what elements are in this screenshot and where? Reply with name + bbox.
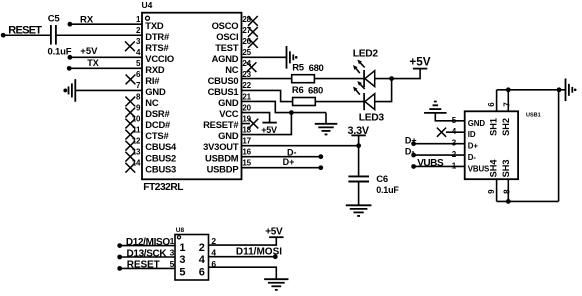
header U8 body bbox=[175, 235, 209, 281]
svg-text:25: 25 bbox=[242, 48, 251, 57]
U8 pin 1 indicator bbox=[177, 236, 180, 239]
svg-text:680: 680 bbox=[309, 63, 324, 74]
svg-text:U8: U8 bbox=[176, 227, 185, 234]
svg-text:TEST: TEST bbox=[215, 42, 239, 53]
svg-text:3: 3 bbox=[136, 37, 141, 46]
wire U4 pin 16 USBDM D- bbox=[242, 156, 321, 158]
wire shield top rail bbox=[497, 89, 559, 91]
wire U4 pin 17 3V3OUT bbox=[242, 145, 359, 147]
svg-text:OSCI: OSCI bbox=[216, 31, 238, 42]
svg-text:6: 6 bbox=[487, 102, 496, 107]
wire U4 pin 25 AGND to ground bbox=[242, 56, 287, 58]
wire ground to U4 pin 7 bbox=[75, 89, 142, 91]
svg-text:2: 2 bbox=[199, 242, 205, 254]
svg-text:3V3OUT: 3V3OUT bbox=[203, 141, 239, 152]
svg-text:SH2: SH2 bbox=[501, 118, 511, 136]
svg-text:LED3: LED3 bbox=[359, 112, 385, 123]
wire TX to U4 pin 5 bbox=[69, 67, 142, 69]
wire R6 to LED3 bbox=[315, 101, 364, 103]
svg-text:LED2: LED2 bbox=[353, 49, 379, 60]
LED2 arrow 2 bbox=[360, 63, 364, 68]
USB1 shield pin 7 wire bbox=[507, 90, 509, 112]
no-connect U4 pin 9 bbox=[125, 108, 135, 118]
+5V supply symbol at VCC bbox=[262, 122, 276, 124]
node TX bbox=[67, 66, 72, 71]
no-connect USB1 pin 4 ID bbox=[446, 131, 465, 133]
wire U4 pin 15 USBDP D+ bbox=[242, 167, 321, 169]
svg-text:ID: ID bbox=[468, 130, 476, 139]
no-connect U4 pin 14 bbox=[125, 163, 135, 173]
node RESET bbox=[1, 33, 6, 38]
svg-text:CBUS2: CBUS2 bbox=[145, 152, 176, 163]
svg-text:19: 19 bbox=[242, 114, 251, 123]
LED3 bbox=[363, 93, 365, 110]
svg-text:4: 4 bbox=[136, 48, 141, 57]
svg-text:22: 22 bbox=[242, 81, 251, 90]
svg-text:SH3: SH3 bbox=[501, 160, 511, 178]
svg-text:5: 5 bbox=[179, 266, 185, 278]
node D11/MOSI bbox=[273, 254, 278, 259]
svg-text:0.1uF: 0.1uF bbox=[376, 185, 399, 195]
node LED junction bbox=[389, 76, 394, 81]
wire RX to U4 pin 1 bbox=[70, 23, 142, 25]
svg-text:20: 20 bbox=[242, 103, 251, 112]
svg-text:VCCIO: VCCIO bbox=[145, 53, 174, 64]
svg-text:+5V: +5V bbox=[265, 226, 283, 237]
no-connect U4 pin 26 bbox=[248, 38, 258, 48]
svg-text:D-: D- bbox=[287, 148, 297, 158]
node VUBS bbox=[411, 164, 416, 169]
svg-text:DTR#: DTR# bbox=[145, 31, 170, 42]
svg-text:4: 4 bbox=[199, 254, 206, 266]
no-connect U4 pin 19 RESET# bbox=[242, 123, 251, 125]
LED2 arrow 1 bbox=[356, 69, 360, 74]
svg-text:VBUS: VBUS bbox=[468, 164, 489, 173]
svg-text:0.1uF: 0.1uF bbox=[48, 46, 72, 57]
svg-text:8: 8 bbox=[503, 189, 512, 194]
ground above USB1 pin 5 bbox=[424, 112, 447, 114]
node shield pin 8 junction bbox=[506, 199, 511, 204]
svg-text:USBDP: USBDP bbox=[207, 163, 239, 174]
wire shield bottom rail bbox=[497, 200, 559, 202]
ground bottom bbox=[264, 278, 288, 280]
svg-text:7: 7 bbox=[503, 102, 512, 107]
node 3V3OUT bbox=[356, 143, 361, 148]
svg-text:R6: R6 bbox=[292, 85, 304, 96]
svg-text:9: 9 bbox=[136, 103, 141, 112]
wire U8 pin 4 D11/MOSI bbox=[209, 256, 276, 258]
svg-text:6: 6 bbox=[211, 259, 216, 269]
svg-text:7: 7 bbox=[136, 81, 141, 90]
svg-text:AGND: AGND bbox=[212, 53, 239, 64]
svg-text:FT232RL: FT232RL bbox=[143, 182, 183, 193]
no-connect U4 pin 10 bbox=[125, 119, 135, 129]
node D- USB bbox=[411, 153, 416, 158]
wire +5V to U4 pin 4 bbox=[70, 56, 142, 58]
svg-text:RTS#: RTS# bbox=[145, 42, 169, 53]
no-connect U4 pin 24 bbox=[247, 62, 257, 72]
svg-text:3.3V: 3.3V bbox=[348, 125, 370, 137]
wire D12/MISO to U8 pin 1 bbox=[120, 245, 175, 247]
node D13/SCK bbox=[117, 255, 122, 260]
USB connector USB1 body bbox=[465, 111, 518, 179]
svg-text:U4: U4 bbox=[142, 0, 153, 10]
svg-text:5: 5 bbox=[136, 59, 141, 68]
3.3V supply symbol bbox=[351, 134, 365, 136]
wire USB1 pin 1 VBUS bbox=[414, 165, 465, 167]
svg-text:+5V: +5V bbox=[261, 125, 277, 135]
svg-text:CTS#: CTS# bbox=[145, 130, 169, 141]
svg-text:RI#: RI# bbox=[145, 75, 160, 86]
svg-text:CBUS0: CBUS0 bbox=[208, 75, 239, 86]
wire node to +5V bbox=[392, 69, 421, 79]
no-connect U4 pin 27 bbox=[248, 27, 258, 37]
no-connect U4 pin 28 bbox=[248, 16, 258, 26]
ground at C6 bbox=[346, 204, 372, 206]
node RX bbox=[68, 22, 73, 27]
resistor R5 bbox=[292, 75, 315, 83]
svg-text:C5: C5 bbox=[48, 14, 61, 25]
no-connect U4 pin 8 bbox=[125, 97, 135, 107]
wire GND rail down to U4 pin 18 bbox=[242, 113, 292, 135]
svg-text:2: 2 bbox=[136, 26, 141, 35]
USB1 shield pin 9 wire bbox=[496, 179, 498, 201]
svg-text:CBUS4: CBUS4 bbox=[145, 141, 177, 152]
svg-text:21: 21 bbox=[242, 92, 251, 101]
svg-text:6: 6 bbox=[136, 70, 141, 79]
svg-text:9: 9 bbox=[487, 189, 496, 194]
svg-text:VCC: VCC bbox=[219, 108, 239, 119]
svg-text:CBUS1: CBUS1 bbox=[208, 86, 239, 97]
svg-text:4: 4 bbox=[211, 248, 216, 258]
wire C5 to U4 pin 2 bbox=[57, 34, 142, 36]
svg-text:R5: R5 bbox=[292, 63, 305, 74]
svg-text:VUBS: VUBS bbox=[417, 158, 444, 169]
wire R5 to LED2 bbox=[314, 78, 364, 80]
capacitor C6 bbox=[348, 175, 369, 177]
svg-text:8: 8 bbox=[136, 92, 141, 101]
wire RESET to U8 pin 5 bbox=[120, 267, 175, 269]
wire LED3 to LED node bbox=[375, 79, 392, 102]
svg-text:TXD: TXD bbox=[145, 20, 164, 31]
ground at U4 pin 7 bbox=[74, 79, 76, 102]
+5V supply symbol bottom bbox=[269, 236, 283, 238]
ground GND rail bbox=[325, 113, 327, 124]
svg-text:CBUS3: CBUS3 bbox=[145, 163, 176, 174]
svg-text:SH1: SH1 bbox=[489, 118, 499, 136]
wire LED2 to node bbox=[375, 78, 392, 80]
wire U8 pin 6 to ground bbox=[209, 267, 277, 279]
svg-text:D+: D+ bbox=[468, 142, 479, 151]
svg-text:15: 15 bbox=[242, 159, 251, 168]
wire U8 pin 2 to +5V bbox=[209, 237, 277, 245]
svg-text:680: 680 bbox=[308, 86, 323, 97]
svg-text:17: 17 bbox=[242, 136, 251, 145]
svg-text:6: 6 bbox=[199, 266, 205, 278]
svg-text:5: 5 bbox=[170, 259, 175, 269]
svg-text:DSR#: DSR# bbox=[145, 108, 170, 119]
svg-text:2: 2 bbox=[211, 236, 216, 246]
svg-text:GND: GND bbox=[468, 119, 486, 128]
+5V supply symbol right bbox=[413, 68, 427, 70]
no-connect U4 pin 13 bbox=[125, 152, 135, 162]
no-connect U4 pin 11 bbox=[125, 130, 135, 140]
svg-text:RXD: RXD bbox=[145, 64, 165, 75]
node D- stub bbox=[318, 154, 323, 159]
U4 pin 1 indicator bbox=[146, 16, 150, 20]
no-connect U4 pin 12 bbox=[125, 141, 135, 151]
svg-text:D-: D- bbox=[405, 146, 415, 156]
svg-text:GND: GND bbox=[145, 86, 166, 97]
wire USB1 pin 3 D+ bbox=[414, 143, 465, 145]
svg-text:3: 3 bbox=[179, 254, 185, 266]
wire USB1 pin 2 D- bbox=[414, 154, 465, 156]
capacitor C5 bbox=[50, 25, 52, 45]
USB1 shield pin 8 wire bbox=[507, 179, 509, 201]
svg-text:TX: TX bbox=[87, 58, 99, 68]
svg-text:D11/MOSI: D11/MOSI bbox=[236, 247, 282, 258]
no-connect U4 pin 6 bbox=[126, 75, 136, 85]
wire shield right vertical bbox=[558, 90, 560, 202]
svg-text:D-: D- bbox=[468, 153, 477, 162]
node D12/MISO bbox=[117, 243, 122, 248]
svg-text:D+: D+ bbox=[283, 157, 295, 167]
LED3 arrow 1 bbox=[356, 90, 360, 95]
svg-text:+5V: +5V bbox=[409, 55, 430, 68]
svg-text:RESET#: RESET# bbox=[203, 119, 239, 130]
LED3 arrow 2 bbox=[360, 84, 364, 89]
svg-text:NC: NC bbox=[225, 64, 239, 75]
no-connect U4 pin 3 bbox=[125, 41, 135, 51]
svg-text:DCD#: DCD# bbox=[145, 119, 171, 130]
node GND rail bbox=[289, 110, 294, 115]
wire U4 pin 21 GND bend bbox=[242, 101, 327, 112]
node shield pin 7 junction bbox=[506, 87, 511, 92]
ground top right bbox=[565, 79, 567, 102]
node D+ USB bbox=[411, 141, 416, 146]
svg-text:1: 1 bbox=[170, 236, 175, 246]
svg-text:+5V: +5V bbox=[80, 46, 98, 57]
LED2 bbox=[363, 70, 365, 87]
ground AGND bbox=[286, 46, 288, 69]
svg-text:16: 16 bbox=[242, 147, 251, 156]
wire RESET to C5 bbox=[3, 34, 50, 36]
svg-text:1: 1 bbox=[136, 15, 141, 24]
svg-text:GND: GND bbox=[218, 130, 239, 141]
resistor R6 bbox=[293, 98, 316, 106]
svg-text:C6: C6 bbox=[376, 174, 388, 185]
svg-text:D13/SCK: D13/SCK bbox=[127, 249, 168, 260]
IC U4 FT232RL body bbox=[142, 13, 242, 180]
node D+ stub bbox=[318, 165, 323, 170]
svg-text:SH4: SH4 bbox=[489, 159, 499, 178]
node RESET bottom bbox=[117, 266, 122, 271]
node +5V VCCIO bbox=[68, 55, 73, 60]
svg-text:D+: D+ bbox=[405, 136, 417, 146]
svg-text:OSCO: OSCO bbox=[212, 20, 239, 31]
svg-text:GND: GND bbox=[218, 97, 239, 108]
wire U4 pin 20 VCC to +5V bbox=[242, 113, 270, 123]
svg-text:NC: NC bbox=[145, 97, 159, 108]
wire U4 pin 22 CBUS1 to R6 bbox=[242, 90, 293, 101]
USB1 shield pin 6 wire bbox=[496, 90, 498, 112]
svg-text:USBDM: USBDM bbox=[205, 152, 239, 163]
node shield right junction bbox=[557, 87, 562, 92]
svg-text:1: 1 bbox=[179, 242, 185, 254]
svg-text:USB1: USB1 bbox=[526, 113, 541, 119]
wire D13/SCK to U8 pin 3 bbox=[120, 256, 175, 258]
wire USB1 pin 5 GND bbox=[435, 113, 464, 121]
wire top rail to ground bbox=[559, 89, 566, 91]
wire U4 pin 23 CBUS0 to R5 bbox=[242, 78, 292, 80]
wire C6 to ground bbox=[358, 182, 360, 206]
svg-text:3: 3 bbox=[170, 248, 175, 258]
wire 3V3OUT down to C6 bbox=[358, 146, 360, 176]
